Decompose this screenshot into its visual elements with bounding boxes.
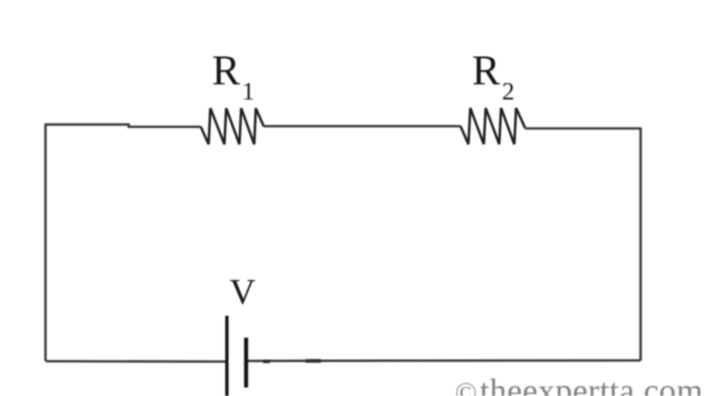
- svg-text:2: 2: [502, 78, 515, 105]
- resistor R1: [201, 108, 264, 144]
- wire: bottom-left segment: [46, 360, 226, 363]
- wire: left vertical side: [44, 125, 46, 362]
- junction mark on bottom wire (wide): [306, 359, 322, 363]
- wire: top-left segment with small step: [45, 125, 201, 127]
- wire: top-right segment: [525, 127, 640, 129]
- wire: top middle segment between R1 and R2: [264, 125, 461, 127]
- battery V: long plate (left): [225, 316, 228, 396]
- wire: right vertical side: [639, 128, 641, 361]
- svg-text:R: R: [472, 49, 500, 95]
- svg-text:1: 1: [242, 78, 255, 105]
- svg-text:V: V: [230, 272, 256, 312]
- svg-text:©theexpertta.com: ©theexpertta.com: [455, 373, 703, 396]
- svg-text:R: R: [212, 49, 240, 95]
- wire: bottom-right segment: [248, 359, 641, 362]
- junction mark on bottom wire (small): [263, 360, 270, 363]
- resistor R2: [461, 108, 526, 144]
- battery V: short plate (right): [244, 338, 248, 388]
